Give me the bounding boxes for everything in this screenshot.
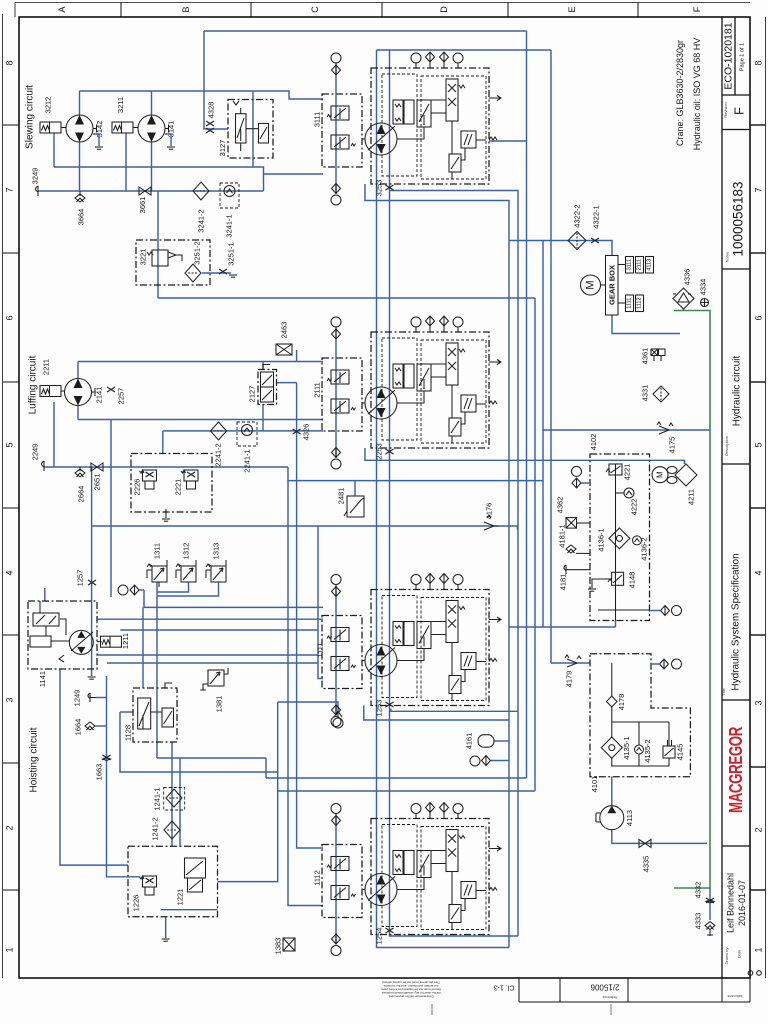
svg-text:4148: 4148 bbox=[628, 572, 637, 589]
wire long mid 4 bbox=[278, 790, 535, 792]
wire 4101 feed bbox=[551, 662, 590, 664]
wire luffing branch bbox=[288, 467, 543, 481]
svg-text:3111: 3111 bbox=[627, 259, 633, 270]
svg-text:3664: 3664 bbox=[77, 209, 86, 226]
filter 4136-1 bbox=[609, 528, 630, 549]
wire c3 tap1 bbox=[391, 709, 518, 712]
pump 4113 bbox=[596, 806, 634, 830]
cooler block 4101 bbox=[590, 654, 690, 793]
check 4136-2 bbox=[633, 536, 642, 545]
breather 2249 bbox=[42, 461, 45, 471]
wire 1312 elbow bbox=[157, 582, 189, 592]
coupling 3251-1 bbox=[202, 272, 231, 274]
breather 4181 bbox=[564, 565, 566, 574]
test point 3.1 bbox=[118, 585, 128, 595]
wire 1241 chain bbox=[171, 742, 173, 846]
wire luffing pump top stub bbox=[77, 362, 79, 380]
svg-text:2211: 2211 bbox=[42, 359, 51, 375]
svg-text:4135-2: 4135-2 bbox=[643, 739, 652, 762]
valve block 3127 bbox=[218, 100, 273, 159]
sensor 2463 bbox=[276, 344, 292, 355]
svg-text:Slewing circuit: Slewing circuit bbox=[25, 85, 36, 149]
wire solenoid 3211 drop bbox=[125, 133, 127, 191]
svg-text:2/15006: 2/15006 bbox=[590, 983, 619, 992]
svg-text:4136-1: 4136-1 bbox=[597, 528, 606, 551]
test point 1.1 bbox=[334, 711, 342, 718]
svg-text:1111: 1111 bbox=[627, 298, 633, 309]
svg-text:3241-2: 3241-2 bbox=[197, 209, 206, 232]
svg-text:Name: Name bbox=[725, 251, 730, 262]
svg-text:4322-1: 4322-1 bbox=[592, 205, 601, 228]
svg-text:3211: 3211 bbox=[116, 97, 125, 113]
svg-text:5: 5 bbox=[5, 442, 15, 447]
svg-text:ECO-1020181: ECO-1020181 bbox=[723, 22, 735, 89]
wire 2481 stub bbox=[354, 481, 356, 496]
breather 1249 bbox=[88, 693, 96, 702]
accumulator 4161 bbox=[465, 733, 495, 750]
svg-text:Revision: Revision bbox=[723, 102, 728, 117]
svg-text:1128: 1128 bbox=[124, 725, 133, 741]
valve 2127 bbox=[248, 365, 277, 405]
filter 1241-1 bbox=[153, 787, 185, 810]
coupling 3253 bbox=[386, 185, 394, 190]
svg-text:GEAR BOX: GEAR BOX bbox=[607, 265, 616, 305]
svg-text:2111: 2111 bbox=[637, 259, 643, 270]
wire long mid 3 bbox=[217, 702, 277, 882]
wire solenoid 3212 drop bbox=[53, 133, 55, 167]
valve 2651 bbox=[91, 463, 103, 471]
pump block 1141 bbox=[28, 601, 97, 687]
svg-text:4175: 4175 bbox=[668, 437, 677, 454]
gearbox bbox=[606, 256, 619, 316]
svg-text:4145: 4145 bbox=[676, 744, 685, 761]
svg-text:8: 8 bbox=[754, 60, 764, 65]
wire lp standby bbox=[92, 526, 518, 530]
svg-text:our written permission, and th: our written permission, and the contents bbox=[383, 984, 438, 988]
filter 2241-2 bbox=[211, 422, 227, 440]
wire corridor v5 bbox=[534, 298, 536, 791]
breather 4334 bbox=[701, 299, 709, 307]
svg-text:6: 6 bbox=[5, 315, 15, 320]
svg-text:2: 2 bbox=[754, 827, 764, 832]
svg-text:D: D bbox=[439, 6, 449, 13]
svg-text:2141: 2141 bbox=[95, 387, 104, 404]
valve 4335 bbox=[639, 839, 651, 847]
svg-text:1: 1 bbox=[5, 947, 15, 952]
svg-text:4179: 4179 bbox=[565, 671, 574, 688]
test point 12 bbox=[572, 466, 582, 476]
block bottom rail bbox=[598, 609, 650, 611]
svg-text:2111: 2111 bbox=[313, 382, 322, 398]
wire 4102 drain bbox=[509, 621, 616, 628]
wire 3221 column bbox=[157, 191, 159, 298]
svg-text:4: 4 bbox=[754, 570, 764, 575]
coupling 1257 bbox=[88, 580, 96, 585]
wire 1313 elbow bbox=[157, 582, 219, 596]
svg-text:7: 7 bbox=[754, 187, 764, 192]
svg-text:4221: 4221 bbox=[623, 464, 632, 481]
wire slewing return bbox=[54, 167, 323, 191]
svg-text:1257: 1257 bbox=[76, 570, 85, 587]
svg-text:3127: 3127 bbox=[218, 140, 227, 157]
filter 4135-1 bbox=[601, 737, 622, 758]
coupling 4326 bbox=[293, 429, 301, 434]
relief valve 1311 bbox=[147, 543, 167, 587]
solenoid 3212 bbox=[40, 122, 61, 133]
wire cluster2 drain bbox=[365, 448, 685, 464]
svg-text:3111: 3111 bbox=[313, 112, 322, 128]
svg-text:thereof must not be imparted t: thereof must not be imparted to a third … bbox=[380, 988, 441, 992]
grid numbers right bbox=[754, 60, 764, 952]
wire luffing pump bottom bbox=[78, 405, 323, 420]
sensor 2481 bbox=[337, 488, 365, 517]
svg-text:2463: 2463 bbox=[280, 322, 289, 339]
valve cluster 3111 bbox=[322, 52, 501, 205]
wire pump1 bottom stub bbox=[79, 142, 81, 191]
coupling 4328 bbox=[206, 121, 214, 133]
fan pump 4211 bbox=[652, 464, 697, 505]
valve block 1226 1221 bbox=[128, 846, 218, 917]
wire 1226 bottom bbox=[161, 910, 217, 938]
wire 2241 drop bbox=[162, 431, 164, 454]
valve cluster 2111 bbox=[322, 316, 501, 469]
motor 2141 bbox=[61, 390, 65, 392]
svg-text:3661: 3661 bbox=[138, 197, 147, 214]
solenoid 1211 bbox=[97, 641, 102, 643]
filter 4322-2 bbox=[568, 204, 586, 249]
frame column dividers top bbox=[121, 3, 638, 18]
valve 1663 bbox=[103, 755, 111, 760]
svg-text:Leif Bonnedahl: Leif Bonnedahl bbox=[726, 873, 736, 933]
check 3664 bbox=[79, 191, 81, 196]
svg-text:Date: Date bbox=[737, 949, 742, 958]
svg-text:2481: 2481 bbox=[337, 488, 346, 505]
motor 3142 drain bbox=[93, 134, 99, 146]
svg-text:2249: 2249 bbox=[31, 444, 40, 461]
svg-text:1383: 1383 bbox=[274, 938, 283, 955]
wire luffing to hoisting column bbox=[110, 420, 112, 598]
valve block 2226 2221 bbox=[131, 454, 212, 522]
svg-text:1112: 1112 bbox=[313, 870, 322, 886]
svg-text:4331: 4331 bbox=[641, 385, 650, 402]
svg-text:Description: Description bbox=[724, 436, 729, 456]
motor M bbox=[581, 275, 601, 295]
wire 1141 drain col bbox=[60, 669, 128, 865]
svg-text:Luffing circuit: Luffing circuit bbox=[28, 355, 39, 414]
coupling 4322-1 bbox=[591, 238, 599, 243]
sensor 4362 bbox=[566, 518, 577, 529]
svg-text:7: 7 bbox=[5, 187, 15, 192]
coupling 1253 bbox=[386, 702, 394, 707]
svg-text:4113: 4113 bbox=[625, 810, 634, 826]
svg-text:4136-2: 4136-2 bbox=[640, 537, 649, 560]
wire slewing pump top header bbox=[80, 91, 324, 99]
check 4178 bbox=[607, 696, 618, 707]
svg-text:B: B bbox=[181, 6, 191, 12]
svg-text:M: M bbox=[585, 280, 597, 289]
check 4222 bbox=[624, 488, 634, 498]
motor 3142 bbox=[61, 127, 66, 129]
relief valve 1313 bbox=[206, 543, 226, 582]
wire 2127 bottom stub bbox=[262, 405, 264, 431]
wire solenoid 2211 drop bbox=[53, 402, 55, 467]
svg-text:2241-2: 2241-2 bbox=[214, 443, 223, 466]
wire trunk top supply bbox=[204, 30, 527, 32]
svg-text:4178: 4178 bbox=[617, 694, 626, 711]
svg-text:1249: 1249 bbox=[73, 690, 82, 707]
svg-text:Page 1 of 1: Page 1 of 1 bbox=[740, 43, 746, 71]
wire 1128 port bbox=[120, 711, 133, 713]
wire 2241 row bbox=[163, 430, 323, 432]
svg-text:8: 8 bbox=[5, 60, 15, 65]
tank at hp column bbox=[88, 677, 96, 679]
wire 1128 down1 bbox=[157, 758, 266, 778]
wire cluster feed right bbox=[390, 50, 519, 936]
footer box bbox=[519, 978, 750, 1002]
svg-text:Title: Title bbox=[721, 688, 726, 696]
wire gearbox riser bbox=[542, 241, 544, 628]
reducer 4148 bbox=[612, 572, 624, 585]
wire 3127 column bbox=[252, 91, 254, 167]
svg-text:4333: 4333 bbox=[694, 913, 703, 930]
svg-text:nor be used for any unauthoriz: nor be used for any unauthorized purpose… bbox=[381, 991, 441, 995]
wire hoist pilot bbox=[144, 590, 323, 607]
power pack 4102 bbox=[588, 434, 650, 621]
wire c3 tap2 bbox=[364, 706, 509, 721]
valve cluster 1112 bbox=[322, 803, 501, 956]
valve 4332 bbox=[706, 898, 714, 903]
svg-text:1112: 1112 bbox=[637, 297, 643, 308]
wire long mid 1 bbox=[266, 777, 527, 779]
svg-text:1254: 1254 bbox=[375, 928, 384, 945]
svg-text:1: 1 bbox=[754, 947, 764, 952]
valve 3661 bbox=[139, 187, 151, 195]
wire test link bbox=[490, 760, 509, 762]
svg-text:4161: 4161 bbox=[465, 733, 474, 750]
wire cluster feed left bbox=[377, 50, 510, 948]
svg-text:Reference: Reference bbox=[602, 995, 617, 999]
relief valve 1312 bbox=[176, 543, 196, 582]
svg-text:2253: 2253 bbox=[375, 443, 384, 460]
wire hoist pilot b bbox=[120, 629, 318, 631]
breather 3249 bbox=[36, 186, 39, 196]
valve 4179 bbox=[565, 655, 581, 667]
wire hoist b bbox=[97, 526, 323, 679]
svg-text:2221: 2221 bbox=[174, 479, 183, 496]
svg-text:4102: 4102 bbox=[589, 434, 598, 451]
wire 1128 return bbox=[120, 712, 278, 772]
svg-text:1663: 1663 bbox=[95, 764, 104, 781]
wire corridor v4 bbox=[550, 50, 552, 663]
wire 4175 header bbox=[543, 429, 710, 431]
wire 1128 feed bbox=[142, 607, 144, 688]
motor 3141 bbox=[133, 127, 138, 129]
wire 1141 top stub bbox=[44, 588, 46, 601]
wire pump2 top stub bbox=[151, 91, 153, 115]
svg-text:4222: 4222 bbox=[630, 499, 639, 516]
frame row dividers left bbox=[3, 125, 20, 890]
wire drain valve col bbox=[709, 888, 711, 920]
motor 3141 drain bbox=[165, 134, 171, 146]
svg-text:Hydraulic System Specification: Hydraulic System Specification bbox=[731, 553, 742, 690]
svg-text:4101: 4101 bbox=[590, 776, 599, 793]
filter 1241-2 bbox=[164, 821, 180, 839]
wire corridor v6 bbox=[489, 140, 527, 142]
svg-text:4181: 4181 bbox=[559, 574, 568, 591]
wire corridor v3 bbox=[526, 31, 528, 778]
title block outline bbox=[722, 17, 750, 978]
svg-text:2664: 2664 bbox=[77, 486, 86, 503]
wire 1221 feed bbox=[179, 758, 181, 846]
svg-text:Cl. 1-3: Cl. 1-3 bbox=[494, 984, 515, 991]
svg-text:Hydraulic oil: ISO VG 68 HV: Hydraulic oil: ISO VG 68 HV bbox=[692, 38, 702, 151]
wire pump2 bottom stub bbox=[151, 142, 153, 191]
wire 2463 drop bbox=[296, 350, 298, 362]
coupling 2257 bbox=[107, 387, 115, 392]
wire 1311 rail bbox=[156, 582, 158, 758]
svg-text:1226: 1226 bbox=[132, 895, 141, 912]
wire 4211 feed bbox=[684, 460, 686, 464]
svg-text:1000056183: 1000056183 bbox=[731, 181, 746, 256]
svg-text:4326: 4326 bbox=[302, 424, 311, 441]
wire 2127 top stub bbox=[262, 362, 264, 370]
wire cluster feed header bbox=[377, 49, 552, 51]
svg-text:5: 5 bbox=[754, 442, 764, 447]
grid letters top bbox=[57, 6, 702, 13]
svg-text:4176: 4176 bbox=[485, 503, 494, 520]
wire 4328 drop bbox=[204, 31, 228, 129]
svg-text:3251-2: 3251-2 bbox=[193, 241, 202, 264]
relief assembly 3221 bbox=[136, 240, 210, 285]
wire green supply a bbox=[683, 309, 685, 311]
filter 3241-1 bbox=[220, 183, 239, 238]
svg-text:This document must not be copi: This document must not be copied without bbox=[382, 981, 440, 985]
svg-text:3: 3 bbox=[5, 697, 15, 702]
svg-text:1253: 1253 bbox=[375, 700, 384, 717]
svg-text:Hydraulic circuit: Hydraulic circuit bbox=[732, 355, 743, 426]
wire gearbox return bbox=[612, 315, 680, 334]
svg-text:4336: 4336 bbox=[683, 269, 692, 286]
wire hoist t bbox=[107, 662, 318, 664]
svg-text:F: F bbox=[732, 107, 747, 115]
sensor 1383 bbox=[283, 938, 295, 951]
svg-text:3253: 3253 bbox=[375, 180, 384, 197]
check 4181-1 bbox=[566, 545, 576, 553]
punch holes bbox=[748, 971, 753, 976]
wire luffing pump top bbox=[78, 361, 323, 363]
filter 3241-2 bbox=[193, 182, 209, 200]
svg-text:4328: 4328 bbox=[207, 102, 216, 119]
solenoid 2211 bbox=[40, 386, 61, 397]
test point i bbox=[470, 756, 480, 766]
svg-text:6: 6 bbox=[754, 315, 764, 320]
coupling 2253 bbox=[386, 449, 394, 454]
svg-text:Crane: GLB3630-2/2830gr: Crane: GLB3630-2/2830gr bbox=[675, 40, 685, 146]
wire 4113 out bbox=[612, 830, 707, 844]
svg-text:C: C bbox=[310, 6, 320, 13]
tank below 1226 bbox=[162, 939, 170, 941]
svg-text:3251-1: 3251-1 bbox=[227, 242, 236, 265]
svg-text:4362: 4362 bbox=[556, 497, 565, 514]
filter 4336 bbox=[673, 269, 694, 309]
check 2664 bbox=[79, 467, 81, 471]
coupling 1254 bbox=[386, 928, 394, 933]
wire luffing suction bbox=[44, 466, 288, 468]
valve 1381 bbox=[200, 668, 228, 712]
wire hp column bbox=[91, 467, 93, 676]
valve 4221 bbox=[609, 464, 622, 475]
wire c4 s port bbox=[288, 481, 323, 906]
svg-text:3249: 3249 bbox=[31, 168, 40, 185]
svg-text:4334: 4334 bbox=[699, 279, 708, 296]
svg-text:Contravention will be prosecut: Contravention will be prosecuted. bbox=[388, 995, 434, 999]
svg-text:1311: 1311 bbox=[153, 543, 162, 559]
wire hoist a1 bbox=[97, 618, 323, 620]
svg-text:A: A bbox=[57, 6, 67, 12]
svg-text:Hoisting circuit: Hoisting circuit bbox=[29, 727, 40, 792]
svg-text:3221: 3221 bbox=[139, 249, 148, 266]
wire 4333 stub bbox=[709, 930, 711, 934]
svg-text:3: 3 bbox=[754, 700, 764, 705]
valve 4175 bbox=[657, 422, 673, 434]
svg-text:4322-2: 4322-2 bbox=[573, 204, 582, 227]
wire 1141 t2 col bbox=[107, 676, 141, 877]
svg-text:4181-1: 4181-1 bbox=[558, 524, 567, 547]
svg-text:2127: 2127 bbox=[248, 386, 257, 403]
wire 4161 link bbox=[494, 740, 509, 742]
footer legal paragraph bbox=[380, 981, 441, 999]
svg-text:4335: 4335 bbox=[642, 856, 651, 873]
wire 2127 out bbox=[277, 383, 324, 848]
grid numbers left bbox=[5, 60, 15, 952]
svg-text:4135-1: 4135-1 bbox=[622, 736, 631, 759]
gearbox pump tags lower bbox=[618, 295, 644, 312]
valve block 1128 bbox=[124, 683, 178, 742]
test point 18 bbox=[661, 606, 670, 616]
fold marks bbox=[431, 1004, 433, 1015]
wire corridor v2 bbox=[365, 184, 509, 948]
svg-text:2016-01-07: 2016-01-07 bbox=[737, 880, 747, 926]
svg-text:3212: 3212 bbox=[44, 97, 53, 114]
filter 2241-1 bbox=[237, 422, 257, 473]
valve 4176 bbox=[484, 515, 499, 530]
wire long mid 2 bbox=[278, 702, 338, 711]
svg-text:2226: 2226 bbox=[133, 479, 142, 496]
svg-text:1211: 1211 bbox=[121, 633, 130, 649]
solenoid 3211 bbox=[112, 122, 133, 133]
svg-text:2651: 2651 bbox=[93, 474, 102, 491]
frame row dividers right bbox=[750, 125, 766, 890]
wire corridor v1 bbox=[390, 191, 519, 937]
wire gearbox supply bbox=[509, 241, 612, 256]
check 1664 bbox=[85, 722, 95, 730]
svg-text:1312: 1312 bbox=[182, 543, 191, 560]
svg-text:3241-1: 3241-1 bbox=[225, 214, 234, 237]
wire slewing case drain bbox=[158, 297, 535, 299]
svg-text:4211: 4211 bbox=[687, 489, 696, 505]
svg-text:4332: 4332 bbox=[694, 882, 703, 899]
svg-text:1111: 1111 bbox=[316, 642, 325, 657]
wire pump1 top stub bbox=[79, 91, 81, 115]
svg-text:data name: data name bbox=[727, 994, 742, 998]
sensor 4361 bbox=[651, 349, 658, 356]
svg-text:1241-1: 1241-1 bbox=[153, 787, 162, 810]
gearbox pump tags upper bbox=[618, 257, 654, 274]
svg-text:1241-2: 1241-2 bbox=[151, 817, 160, 840]
svg-text:2: 2 bbox=[5, 825, 15, 830]
wire 4101 to pump bbox=[611, 777, 613, 806]
svg-text:1381: 1381 bbox=[215, 696, 224, 713]
